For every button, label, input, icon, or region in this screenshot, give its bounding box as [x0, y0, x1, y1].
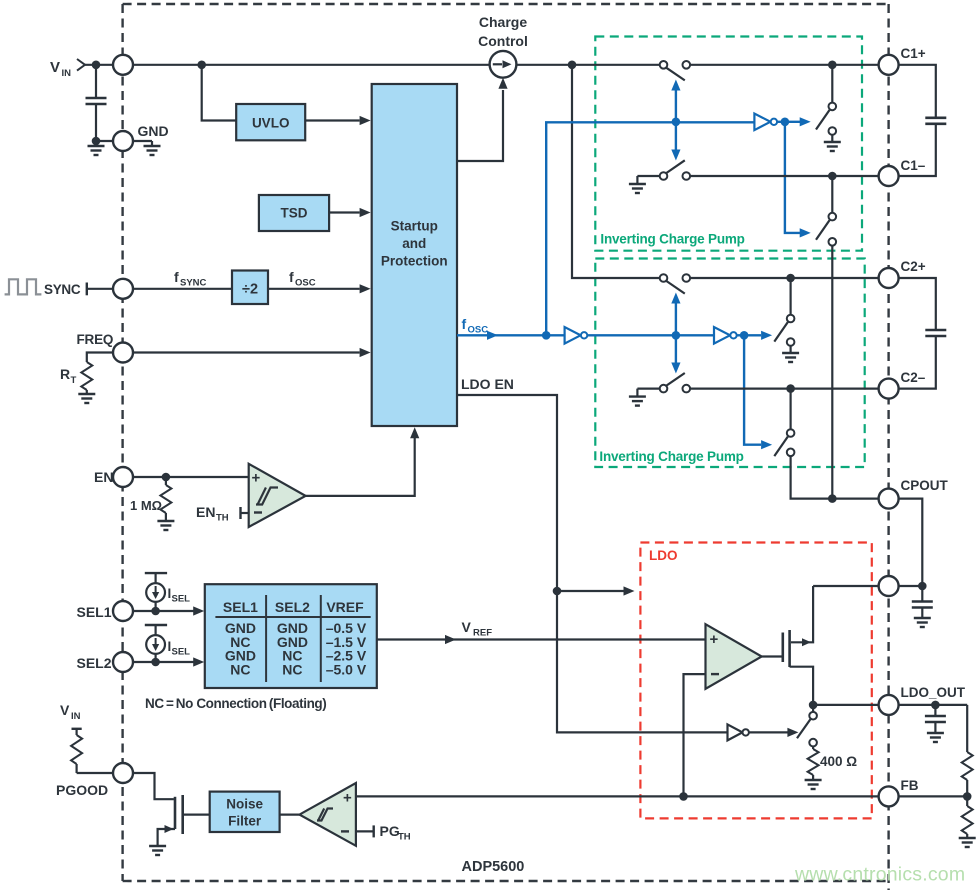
ground at 400 ohm [805, 780, 822, 789]
svg-text:and: and [402, 236, 426, 251]
svg-text:TH: TH [398, 832, 411, 843]
node SEL2 junction [151, 658, 160, 667]
ground switch row C1- [636, 176, 638, 184]
svg-text:C2+: C2+ [901, 259, 926, 274]
svg-text:1 MΩ: 1 MΩ [130, 498, 162, 513]
svg-text:Startup: Startup [391, 219, 438, 234]
svg-text:TSD: TSD [281, 206, 308, 221]
wire EN pin to comparator [133, 476, 249, 478]
wire charge control drive from startup block [457, 90, 503, 161]
IC boundary dashed box ADP5600 [123, 4, 889, 890]
wire GND pin to ground [133, 140, 152, 142]
switch S3 ground to C1- [660, 172, 668, 180]
switch LDO discharge [812, 705, 814, 712]
svg-text:LDO_OUT: LDO_OUT [901, 685, 966, 700]
svg-text:LDO: LDO [649, 548, 678, 563]
wire VIN rail charge control to switch S1 [516, 64, 659, 66]
wire op-amp output to gate [762, 655, 783, 657]
svg-text:FREQ: FREQ [77, 332, 114, 347]
wire noise filter to comparator output [280, 813, 300, 815]
svg-text:Noise: Noise [226, 797, 263, 812]
wire gate to noise filter [183, 813, 210, 815]
external flying cap C2 [899, 278, 936, 330]
svg-text:CPOUT: CPOUT [901, 478, 949, 493]
wire FREQ to RT [87, 353, 113, 363]
wire between fOSC inverters [587, 334, 714, 336]
SYNC square wave symbol [5, 279, 42, 294]
double arrow pump1 phase [675, 89, 677, 152]
wire source to ground [158, 829, 175, 846]
wire C1+ rail [690, 64, 879, 66]
wire pump1 to CPOUT [831, 246, 833, 499]
svg-text:IN: IN [71, 711, 81, 722]
wire pullup to PGOOD pin [77, 772, 113, 774]
svg-text:f: f [462, 316, 467, 332]
switch S4 C1- to CPOUT vertical [831, 176, 833, 213]
svg-text:Protection: Protection [381, 254, 448, 269]
wire divider to startup fOSC [268, 288, 360, 290]
pin EN [113, 467, 133, 487]
node FB to op-amp minus [679, 792, 688, 801]
node CPOUT to LDO input [918, 582, 927, 591]
wire inverter to pump2 switches [737, 334, 744, 336]
wire CPOUT external to LDO input pin [899, 499, 923, 586]
node VIN junction at cap [92, 61, 101, 70]
svg-text:GND: GND [138, 123, 169, 139]
node pump2 drive split [740, 331, 749, 340]
svg-text:R: R [60, 366, 70, 382]
VIN input chevron [77, 59, 85, 71]
svg-text:f: f [174, 269, 179, 285]
wire arrow to pump1 bottom switch [785, 122, 800, 233]
double arrow pump2 phase [675, 302, 677, 364]
wire arrow to pump2 bottom switch [744, 335, 761, 444]
ENTH terminal tick [239, 507, 241, 519]
node LDO_OUT ext cap [931, 701, 940, 710]
svg-text:Inverting Charge Pump: Inverting Charge Pump [599, 449, 743, 464]
svg-text:SEL1: SEL1 [77, 604, 112, 620]
wire SEL1 to table [133, 610, 195, 612]
switch S5 top to C2+ [660, 274, 668, 282]
PGTH terminal tick [373, 825, 375, 837]
op-amp U2 LDO error amplifier [706, 624, 762, 689]
svg-text:UVLO: UVLO [252, 116, 290, 131]
wire LDO EN from startup [457, 395, 728, 732]
svg-text:LDO EN: LDO EN [461, 376, 514, 392]
svg-text:400 Ω: 400 Ω [820, 754, 857, 769]
resistor 1 Mohm [165, 477, 167, 485]
svg-text:OSC: OSC [295, 278, 316, 289]
svg-text:NC: NC [282, 661, 302, 677]
node pump2 phase junction [672, 331, 681, 340]
svg-text:NC = No Connection (Floating): NC = No Connection (Floating) [145, 696, 326, 711]
inverter pump2 clock driver [714, 327, 730, 344]
wire TSD to startup [329, 211, 359, 213]
svg-text:C1–: C1– [901, 158, 926, 173]
green dashed box Inverting Charge Pump 2 [595, 259, 864, 468]
pin LDO_OUT [879, 695, 899, 715]
green dashed box Inverting Charge Pump 1 [595, 37, 862, 251]
wire SEL2 to table [133, 661, 195, 663]
inverter fOSC first [565, 327, 581, 344]
svg-text:REF: REF [473, 628, 492, 639]
wire fOSC branch up to pump1 [546, 122, 754, 335]
pin LDO input [879, 576, 899, 596]
ground pump1 switch [824, 142, 841, 151]
pin VIN [113, 55, 133, 75]
svg-text:TH: TH [216, 513, 229, 524]
wire SYNC tick to pin [87, 288, 113, 290]
node EN divider junction [162, 473, 171, 482]
svg-text:SEL: SEL [172, 594, 191, 605]
resistor RT [81, 362, 92, 390]
node GND junction [92, 137, 101, 146]
wire LDO_OUT external [899, 704, 968, 706]
wire LDO EN arrow into LDO [557, 590, 624, 592]
pin SYNC [113, 279, 133, 299]
svg-text:EN: EN [94, 469, 113, 485]
switch S8 C2- to CPOUT vertical [789, 389, 791, 430]
wire pump2 VIN feed vertical [572, 65, 660, 278]
wire pump2 to CPOUT row [791, 456, 879, 499]
resistor 400 ohm [812, 746, 814, 749]
svg-text:VREF: VREF [326, 599, 364, 615]
wire PGTH to comparator minus [356, 830, 374, 832]
svg-text:SEL2: SEL2 [77, 655, 112, 671]
svg-text:Control: Control [478, 33, 528, 49]
switch S6 C2+ to ground vertical [789, 278, 791, 315]
wire inverter to discharge switch [749, 731, 788, 733]
node C1- rail to out switch [828, 172, 837, 181]
SYNC terminal tick [86, 283, 88, 296]
comparator U3 power good [300, 783, 356, 846]
svg-text:SEL1: SEL1 [223, 599, 258, 615]
block Noise Filter [210, 792, 280, 832]
node pump1 phase junction [672, 118, 681, 127]
node FB divider [963, 792, 972, 801]
node VIN rail to pump2 feed [568, 61, 577, 70]
node C1+ rail to gnd switch [828, 61, 837, 70]
node C2+ rail to gnd switch [786, 274, 795, 283]
svg-text:V: V [60, 702, 70, 718]
switch S1 top to C1+ [660, 61, 668, 69]
svg-text:+: + [710, 631, 719, 648]
pin FREQ [113, 343, 133, 363]
svg-text:–5.0 V: –5.0 V [326, 661, 367, 677]
wire VIN to pin [85, 64, 113, 66]
pin C2+ [879, 268, 899, 288]
svg-text:FB: FB [901, 778, 919, 793]
wire GND cap to pin [96, 140, 113, 142]
current source ISEL2 [145, 624, 167, 626]
node C2- rail to out switch [786, 384, 795, 393]
comparator U-EN enable [249, 464, 306, 527]
external flying cap C1 [899, 65, 936, 118]
node CPOUT junction [828, 494, 837, 503]
wire PGOOD pin to MOSFET drain [133, 773, 174, 799]
svg-text:ADP5600: ADP5600 [462, 859, 525, 875]
svg-text:IN: IN [62, 68, 72, 79]
svg-text:www.cntronics.com: www.cntronics.com [794, 864, 965, 886]
svg-text:Charge: Charge [479, 14, 527, 30]
block VREF select table [205, 584, 377, 688]
wire C1- rail [690, 175, 879, 177]
inverter LDO discharge driver [728, 724, 743, 740]
switch S7 ground to C2- [660, 385, 668, 393]
external cap at LDO_OUT [934, 705, 936, 716]
current source ISEL1 [145, 572, 167, 574]
ground switch row C2- [636, 389, 638, 397]
external cap at LDO input [921, 586, 923, 602]
svg-text:NC: NC [230, 661, 250, 677]
svg-text:+: + [252, 470, 261, 487]
ground at FB divider [959, 838, 976, 847]
wire FB external [899, 795, 968, 797]
pin SEL1 [113, 601, 133, 621]
wire C2- rail [690, 388, 879, 390]
block divide-by-2 [232, 271, 268, 305]
pin C1- [879, 166, 899, 186]
wire gnd to switch S7 [637, 388, 659, 390]
wire UVLO feed [202, 65, 237, 121]
ground at LDO_OUT cap [927, 733, 944, 742]
block Startup and Protection [372, 84, 457, 426]
VIN pullup terminal tick [72, 728, 82, 730]
ground at GND pin [151, 141, 153, 146]
ground pump2 switch [782, 353, 799, 362]
node LDO EN branch [553, 587, 562, 596]
svg-text:f: f [289, 269, 294, 285]
pin PGOOD [113, 763, 133, 783]
svg-text:SYNC: SYNC [44, 282, 81, 297]
charge control circle U-CC [490, 51, 517, 78]
wire inverter to pump1 switches [777, 121, 785, 123]
node LDO_OUT junction [809, 701, 818, 710]
resistor feedback bottom [966, 796, 968, 806]
resistor PGOOD pullup [75, 729, 77, 735]
wire FREQ pin to startup [133, 351, 360, 353]
wire pass device drain to LDO_OUT [790, 667, 814, 705]
svg-text:EN: EN [196, 504, 215, 520]
svg-text:Filter: Filter [228, 814, 262, 829]
wire op-amp minus to FB [684, 674, 706, 796]
wire arrow to pump2 top switch [744, 334, 761, 336]
block UVLO [236, 104, 305, 140]
inverter pump1 clock driver [754, 114, 770, 131]
wire fOSC blue main [457, 334, 565, 336]
input capacitor at VIN [95, 65, 97, 98]
svg-text:C1+: C1+ [901, 46, 926, 61]
wire pass device source [791, 586, 813, 642]
transistor Q1 PGOOD open-drain NMOS [174, 797, 177, 829]
wire SYNC pin to divider [133, 288, 232, 290]
svg-text:V: V [462, 619, 472, 635]
svg-text:SEL: SEL [172, 647, 191, 658]
ground at VIN cap [95, 141, 97, 146]
wire LDO_OUT row [813, 704, 879, 706]
wire LDO input pin external [899, 585, 923, 587]
pin C2- [879, 379, 899, 399]
wire UVLO to startup [305, 119, 359, 121]
transistor M1 LDO pass PMOS [788, 630, 791, 667]
pin SEL2 [113, 652, 133, 672]
wire FB to comparator and op-amp [356, 795, 879, 797]
ground at PGOOD NMOS [149, 846, 166, 855]
pin CPOUT [879, 489, 899, 509]
wire ENTH to comparator minus [241, 512, 249, 514]
wire EN comparator output to startup [306, 437, 415, 496]
svg-text:÷2: ÷2 [242, 281, 258, 297]
node VIN rail to UVLO [197, 61, 206, 70]
switch S2 C1+ to ground vertical [831, 65, 833, 103]
wire gnd to switch S3 [637, 175, 659, 177]
ground at 1 Mohm [157, 521, 174, 530]
ground at RT [78, 394, 95, 403]
wire C2+ rail [690, 277, 879, 279]
svg-text:OSC: OSC [468, 325, 489, 336]
node SEL1 junction [151, 607, 160, 616]
svg-text:V: V [50, 59, 60, 76]
svg-text:PG: PG [380, 823, 400, 839]
block TSD [259, 195, 329, 231]
svg-text:C2–: C2– [901, 370, 926, 385]
resistor feedback top [966, 705, 968, 752]
ground at LDO input cap [914, 618, 931, 627]
node pump1 drive split [781, 118, 790, 127]
svg-text:T: T [71, 375, 77, 386]
pin C1+ [879, 55, 899, 75]
wire VREF to LDO op-amp [377, 638, 706, 640]
wire arrow to pump1 top switch [785, 121, 800, 123]
pin GND [113, 131, 133, 151]
svg-text:+: + [343, 790, 352, 807]
pin FB [879, 786, 899, 806]
wire VIN rail pin to charge control [133, 64, 490, 66]
svg-text:Inverting Charge Pump: Inverting Charge Pump [600, 232, 744, 247]
svg-text:SYNC: SYNC [180, 278, 207, 289]
svg-text:PGOOD: PGOOD [56, 782, 108, 798]
node fOSC branch to pump1 [542, 331, 551, 340]
svg-text:SEL2: SEL2 [275, 599, 310, 615]
red dashed box LDO [640, 543, 871, 819]
wire LDO input pin to pass device [813, 585, 879, 587]
